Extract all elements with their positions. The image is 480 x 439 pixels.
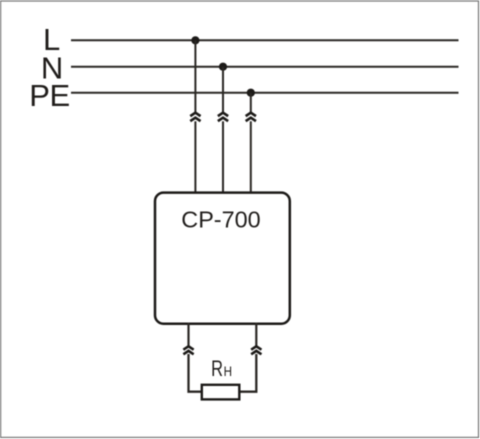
svg-text:R: R [211, 356, 223, 381]
wire L drop upper [194, 40, 196, 112]
connector chevrons load left [183, 346, 193, 354]
svg-text:PE: PE [29, 78, 69, 113]
wire N drop lower [222, 121, 224, 194]
svg-text:CP-700: CP-700 [181, 207, 260, 233]
svg-text:H: H [224, 363, 232, 379]
wire L bus [71, 39, 459, 41]
relay U1 CP-700 body [155, 193, 290, 324]
wire load left lower [189, 354, 203, 392]
wire PE drop upper [250, 93, 252, 113]
connector chevrons wire PE [246, 113, 256, 121]
wire load right lower [239, 354, 256, 392]
wire N drop upper [222, 67, 224, 113]
wire PE drop lower [250, 121, 252, 194]
wire load right upper [255, 323, 257, 347]
connector chevrons wire N [218, 113, 228, 121]
resistor RH body [202, 385, 240, 400]
wire PE bus [71, 92, 459, 94]
connector chevrons wire L [190, 113, 200, 121]
wire L drop lower [194, 121, 196, 194]
connector chevrons load right [251, 346, 261, 354]
junction N [219, 63, 227, 71]
junction PE [247, 89, 255, 97]
junction L [191, 36, 199, 44]
wire load left upper [187, 323, 189, 347]
wire N bus [71, 66, 459, 68]
